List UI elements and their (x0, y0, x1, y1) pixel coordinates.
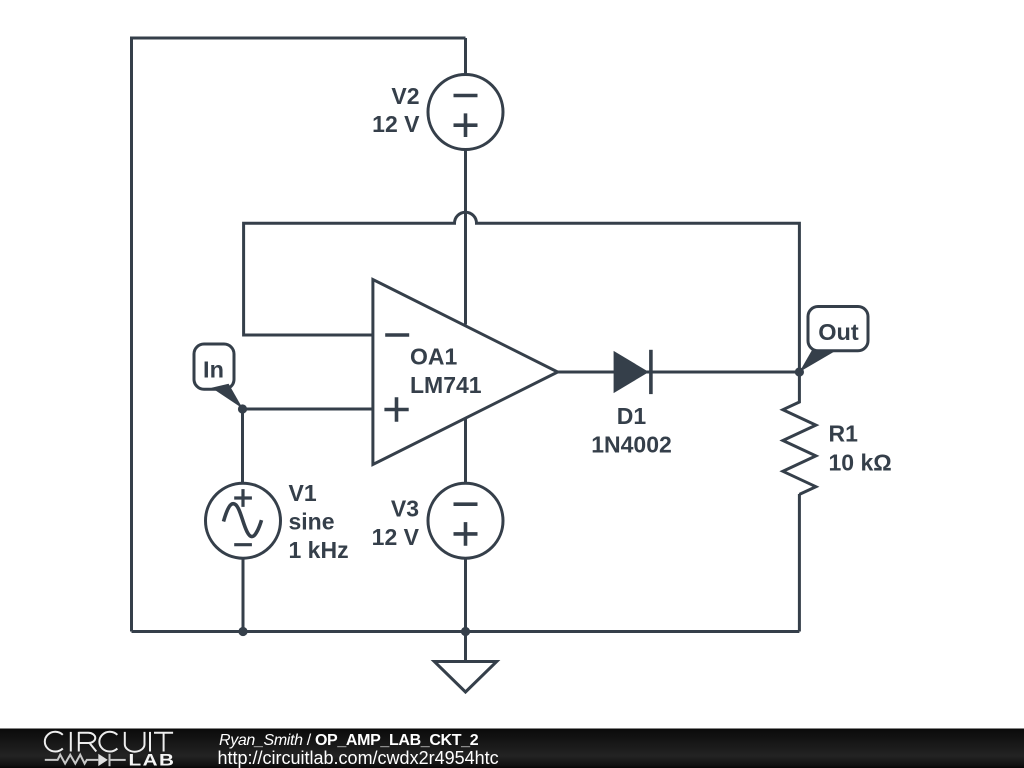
node label Out box (808, 307, 868, 351)
voltage source V2 (428, 75, 503, 150)
junction node V3-gnd (461, 627, 470, 636)
wire V2 to op-amp V+ (464, 150, 467, 325)
svg-text:Ryan_Smith / OP_AMP_LAB_CKT_2: Ryan_Smith / OP_AMP_LAB_CKT_2 (219, 732, 479, 749)
resistor R1 zigzag (783, 372, 816, 494)
CircuitLab logo CIRCUIT (45, 732, 173, 752)
diode D1 (614, 350, 651, 394)
ground symbol (434, 632, 496, 693)
junction node In (238, 404, 247, 413)
op-amp OA1 triangle (373, 280, 558, 465)
svg-text:Out: Out (818, 319, 859, 345)
svg-text:OA1: OA1 (410, 344, 458, 370)
svg-text:LM741: LM741 (410, 372, 482, 398)
Out label pointer wedge (799, 350, 836, 372)
voltage source V3 (428, 483, 503, 558)
svg-text:V3: V3 (391, 495, 419, 521)
svg-text:http://circuitlab.com/cwdx2r49: http://circuitlab.com/cwdx2r4954htc (218, 748, 499, 768)
wire feedback: inverting input to output node (244, 212, 800, 372)
wire non-inverting input (243, 408, 373, 411)
svg-text:LAB: LAB (129, 751, 176, 768)
wire op-amp output to diode (558, 371, 800, 374)
svg-text:12 V: 12 V (372, 111, 420, 137)
node label In box (194, 344, 234, 389)
wire top-left loop (left vertical + top horizontal) (132, 38, 466, 632)
svg-text:V1: V1 (289, 480, 317, 506)
op-amp minus symbol (385, 333, 409, 337)
wire bottom rail (132, 630, 800, 633)
wire op-amp V- to V3 (464, 418, 467, 483)
footer bar (0, 729, 1024, 768)
footer url text (218, 748, 499, 768)
svg-text:R1: R1 (829, 421, 859, 447)
svg-text:1N4002: 1N4002 (591, 431, 672, 457)
svg-text:12 V: 12 V (372, 524, 420, 550)
svg-text:D1: D1 (617, 403, 647, 429)
wire V1 to ground rail (242, 558, 245, 631)
junction node V1-gnd (238, 627, 247, 636)
wire V3 to ground rail (464, 558, 467, 631)
svg-text:sine: sine (289, 508, 335, 534)
footer title text (219, 732, 479, 749)
In label pointer wedge (212, 384, 243, 409)
svg-text:In: In (203, 357, 224, 383)
svg-text:10 kΩ: 10 kΩ (829, 449, 892, 475)
CircuitLab logo LAB (129, 751, 176, 768)
voltage source V1 (sine) (206, 483, 281, 558)
svg-text:1 kHz: 1 kHz (289, 537, 349, 563)
wire R1 to rail (798, 494, 801, 632)
op-amp plus symbol (384, 397, 408, 421)
wire V2 top lead (464, 38, 467, 75)
CircuitLab logo resistor-diode glyph (45, 754, 126, 766)
wire In node to V1 (241, 409, 244, 483)
svg-text:V2: V2 (391, 83, 419, 109)
junction node Out (795, 367, 804, 376)
